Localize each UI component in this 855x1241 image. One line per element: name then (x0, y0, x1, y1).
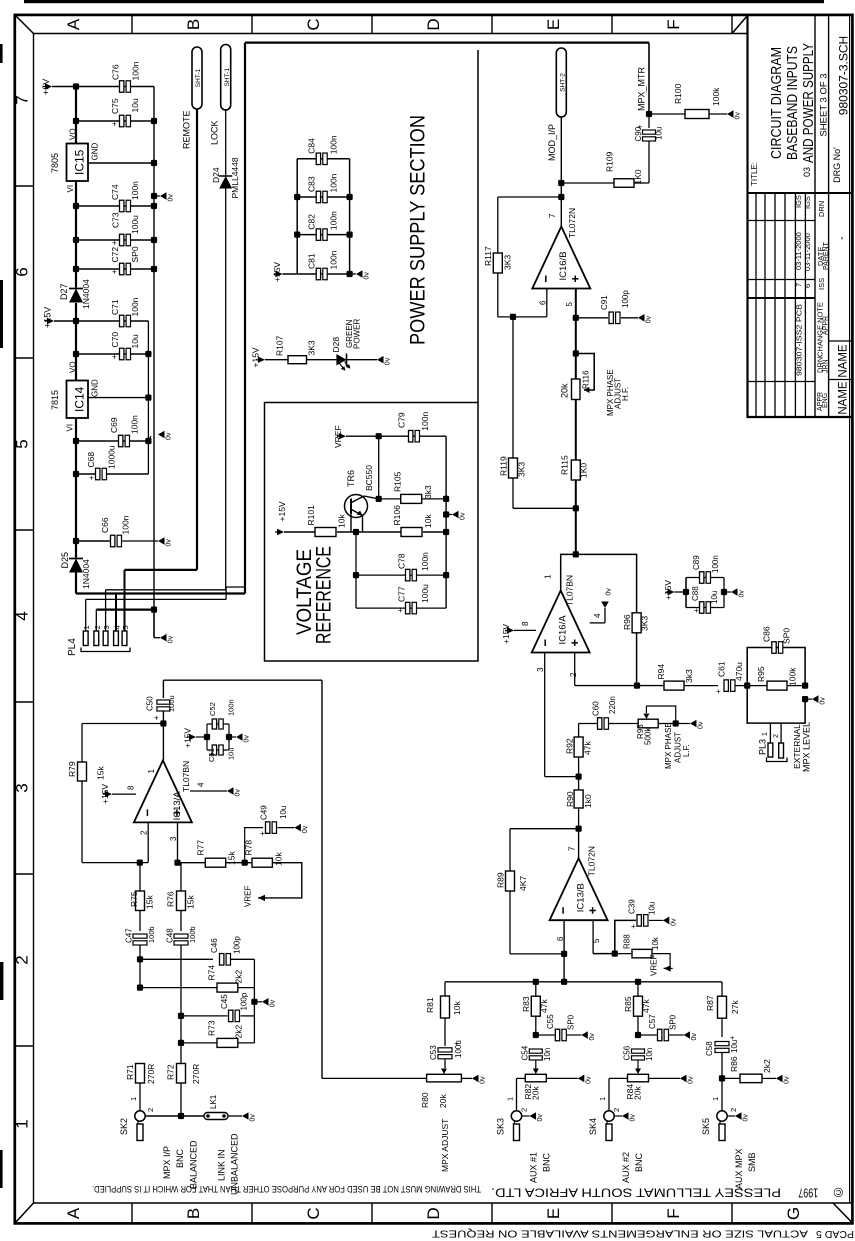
capacitor C71 (76, 320, 148, 322)
svg-text:SHT-1: SHT-1 (195, 68, 202, 87)
svg-text:AUX #2: AUX #2 (621, 1152, 631, 1183)
svg-text:C89: C89 (692, 555, 701, 570)
svg-text:C: C (304, 1207, 323, 1219)
svg-text:R109: R109 (605, 151, 615, 172)
ground SK3 shield (522, 1115, 530, 1117)
svg-text:100n: 100n (130, 181, 140, 200)
connector SK4 (604, 1111, 614, 1121)
resistor R106 (401, 528, 422, 537)
svg-text:R96: R96 (622, 614, 632, 630)
svg-text:R86: R86 (729, 1056, 739, 1072)
wire pin5 to REMOTE (125, 569, 198, 571)
svg-text:C56: C56 (623, 1045, 632, 1060)
svg-text:VO: VO (69, 361, 78, 373)
svg-text:C49: C49 (260, 805, 269, 820)
capacitor C84 (297, 158, 349, 160)
svg-text:IC15: IC15 (73, 149, 87, 175)
op-amp IC16/B (532, 227, 590, 289)
wire pin6 IC16/B (546, 289, 548, 317)
ground 0V (356, 270, 371, 279)
svg-text:47k: 47k (539, 999, 549, 1013)
capacitor C86 loop (747, 648, 805, 686)
svg-text:0v: 0v (537, 1114, 544, 1122)
svg-text:D: D (424, 1207, 443, 1219)
svg-text:POWER SUPPLY SECTION: POWER SUPPLY SECTION (407, 115, 430, 345)
wire pin3 IC13/A (177, 822, 179, 862)
svg-text:BASEBAND INPUTS: BASEBAND INPUTS (785, 46, 801, 160)
svg-text:MPX_MTR: MPX_MTR (637, 66, 647, 111)
op-amp IC13/B (550, 858, 608, 920)
svg-text:DRN: DRN (817, 201, 826, 217)
svg-text:0v: 0v (166, 539, 173, 547)
svg-text:8: 8 (521, 621, 530, 626)
svg-text:C66: C66 (100, 517, 110, 533)
wire R107 to D28 (307, 359, 337, 361)
wire SK2 shield (145, 1115, 204, 1117)
wire D28 to ground (347, 359, 378, 361)
svg-text:+: + (89, 474, 94, 483)
svg-text:SK4: SK4 (588, 1118, 598, 1135)
wire pin4 IC13/A ground (190, 790, 227, 792)
resistor R83 (535, 982, 537, 996)
svg-text:980307-ISS2 PCB: 980307-ISS2 PCB (795, 304, 804, 376)
wire pin4 rail horizontal (76, 592, 245, 594)
node +6V (45, 83, 52, 89)
svg-text:1: 1 (711, 1097, 720, 1101)
ground 0V (601, 588, 612, 608)
capacitor C68 (76, 473, 96, 475)
capacitor C69 (76, 440, 148, 442)
svg-text:0v: 0v (270, 999, 277, 1007)
svg-text:100n: 100n (329, 250, 339, 269)
svg-text:PCAD 5: PCAD 5 (816, 1228, 854, 1240)
resistor R88 (615, 953, 632, 955)
svg-text:0v: 0v (235, 789, 242, 797)
ground branch C69 (148, 434, 160, 441)
svg-text:BALANCED: BALANCED (189, 1140, 199, 1189)
svg-text:R85: R85 (623, 996, 633, 1012)
svg-text:IC14: IC14 (73, 386, 87, 412)
svg-text:0v: 0v (739, 590, 746, 598)
wire R79 bottom to pin2 (82, 862, 148, 864)
wire +15V to rail (54, 320, 76, 322)
capacitor C60 (579, 723, 597, 725)
svg-text:47k: 47k (641, 999, 651, 1013)
wire cap bank left vertical (283, 273, 298, 275)
svg-text:MPX LEVEL: MPX LEVEL (802, 722, 812, 772)
wire cap bank right vertical (349, 159, 351, 274)
svg-text:+: + (112, 353, 117, 362)
wire R119 bottom (513, 507, 576, 509)
wire collector drop (378, 436, 380, 499)
resistor R85 (637, 982, 639, 996)
svg-text:100u: 100u (130, 215, 140, 234)
svg-text:100n: 100n (130, 297, 140, 316)
LED D28 (336, 354, 346, 366)
svg-text:47k: 47k (583, 741, 593, 755)
svg-text:270R: 270R (191, 1064, 201, 1084)
svg-text:+: + (209, 750, 214, 759)
svg-text:2k2: 2k2 (762, 1059, 772, 1073)
svg-text:100n: 100n (227, 699, 236, 716)
resistor R72 (177, 1064, 186, 1084)
ground 0V (472, 1075, 487, 1084)
resistor R119 (512, 317, 514, 458)
wire R117 feedback top (498, 196, 562, 198)
svg-text:3: 3 (102, 625, 111, 629)
wire MOD_I/P vertical (560, 117, 562, 227)
ground mid branch (251, 999, 257, 1005)
svg-text:5: 5 (592, 938, 601, 943)
svg-text:270R: 270R (146, 1064, 156, 1084)
svg-text:TL07BN: TL07BN (565, 575, 575, 606)
section boundary vertical line (477, 50, 479, 403)
ground 0V (530, 1112, 545, 1121)
ground 0V (236, 733, 251, 742)
svg-text:G: G (784, 1207, 803, 1220)
wire +6V rail top (52, 86, 154, 88)
svg-text:SP0: SP0 (566, 1014, 575, 1030)
connector SK2 (135, 1111, 145, 1121)
ground 0V (622, 1112, 637, 1121)
grid band dividers bottom (131, 1203, 133, 1223)
svg-text:100u: 100u (167, 695, 176, 712)
svg-text:5: 5 (13, 439, 32, 448)
svg-text:D24: D24 (211, 167, 221, 183)
svg-text:+: + (631, 922, 636, 931)
svg-text:5: 5 (565, 302, 574, 307)
resistor R78 (252, 858, 272, 867)
svg-text:1K0: 1K0 (633, 169, 643, 184)
svg-text:C81: C81 (307, 253, 317, 269)
svg-text:R77: R77 (196, 840, 206, 856)
svg-text:+15V: +15V (183, 728, 193, 748)
wire PL3 loop (747, 686, 805, 724)
svg-text:C52: C52 (208, 702, 217, 716)
svg-text:C69: C69 (109, 417, 119, 433)
svg-text:1k0: 1k0 (583, 794, 593, 808)
wire pin1 horizontal (86, 598, 226, 600)
node +15V (47, 318, 54, 324)
node +15V vref (277, 529, 284, 535)
capacitor C50 (162, 680, 164, 698)
svg-text:100n: 100n (329, 173, 339, 192)
svg-text:NAME: NAME (838, 344, 850, 378)
svg-text:C76: C76 (111, 64, 121, 80)
capacitor C83 (297, 196, 349, 198)
svg-text:R81: R81 (425, 997, 435, 1013)
svg-text:0v: 0v (250, 1114, 257, 1122)
svg-text:20k: 20k (438, 1094, 448, 1108)
resistor R101 (284, 531, 315, 533)
svg-text:2: 2 (612, 1108, 621, 1112)
svg-text:SHT-2: SHT-2 (560, 73, 567, 92)
svg-text:+: + (112, 239, 117, 248)
svg-text:1000u: 1000u (107, 445, 117, 469)
corner diagonal top-left (16, 16, 34, 34)
svg-text:10u: 10u (655, 127, 664, 140)
node VREF R88 (664, 965, 671, 971)
ground 0V (684, 1031, 699, 1040)
wire right branch C46 R74 (253, 959, 255, 1043)
svg-text:GND: GND (91, 143, 100, 161)
svg-text:SK3: SK3 (496, 1118, 506, 1135)
svg-text:TL072N: TL072N (567, 208, 577, 238)
svg-text:3K3: 3K3 (517, 462, 527, 477)
svg-text:SK2: SK2 (119, 1118, 129, 1135)
svg-text:20k: 20k (531, 1086, 541, 1100)
PL4 bracket (81, 648, 130, 652)
resistor R92 (578, 724, 580, 738)
svg-text:TR6: TR6 (346, 470, 356, 487)
svg-text:4K7: 4K7 (518, 876, 528, 891)
svg-text:100n: 100n (130, 415, 140, 434)
wire top distribution horizontal (245, 41, 649, 43)
svg-text:POWER: POWER (353, 319, 362, 349)
corner diagonal bottom-right (833, 1203, 852, 1222)
ground branch IC15 (151, 193, 157, 199)
wire pin3 to LOCK (106, 589, 226, 591)
svg-text:C82: C82 (307, 214, 317, 230)
ground 0V (452, 511, 467, 520)
wire pin2 IC13/A (147, 822, 149, 862)
svg-text:BNC: BNC (634, 1152, 644, 1172)
svg-text:0v: 0v (691, 1033, 698, 1041)
svg-text:0v: 0v (364, 272, 371, 280)
svg-text:100p: 100p (240, 992, 249, 1010)
svg-text:+6V: +6V (41, 79, 51, 95)
diode D24 (219, 175, 232, 177)
ground 0V (812, 695, 827, 704)
svg-text:10k: 10k (273, 852, 283, 866)
svg-text:6: 6 (803, 284, 812, 288)
svg-text:100k: 100k (788, 667, 798, 686)
svg-text:0v: 0v (166, 432, 173, 440)
ground 0V (262, 998, 277, 1007)
svg-text:PMLL4448: PMLL4448 (230, 157, 240, 198)
transistor TR6 (345, 495, 368, 518)
svg-text:2: 2 (520, 1108, 529, 1112)
node VREF R78 (258, 895, 265, 901)
top margin black bar (24, 0, 824, 3)
svg-text:4: 4 (593, 613, 602, 618)
svg-text:+: + (730, 1033, 735, 1042)
svg-text:10u: 10u (648, 902, 657, 915)
ground 0V (776, 1075, 791, 1084)
svg-text:6: 6 (538, 300, 547, 305)
svg-text:SHEET 3 OF 3: SHEET 3 OF 3 (819, 73, 830, 136)
svg-text:100n: 100n (420, 412, 430, 431)
svg-text:0v: 0v (735, 112, 742, 120)
sheet link MOD_I/P SHT-2 (556, 48, 566, 117)
wire pin6 IC13/B (563, 920, 565, 982)
wire VREF rail (346, 435, 379, 437)
svg-text:5: 5 (121, 625, 130, 629)
capacitor C58 (715, 1042, 729, 1046)
svg-text:6: 6 (556, 936, 565, 941)
wire C50 coupling vertical (321, 680, 323, 1078)
svg-text:C47: C47 (124, 928, 133, 943)
svg-text:03: 03 (802, 167, 812, 177)
svg-text:2: 2 (146, 1108, 155, 1112)
resistor R117 (497, 197, 499, 253)
capacitor C48 (174, 934, 188, 938)
svg-text:+: + (260, 829, 265, 838)
capacitor C57 (635, 1032, 641, 1038)
svg-text:2: 2 (773, 734, 780, 738)
svg-text:100u: 100u (420, 584, 430, 603)
ground 0V (158, 537, 173, 546)
svg-text:E: E (544, 19, 563, 30)
trimpot R116 (573, 350, 579, 356)
svg-text:C84: C84 (307, 138, 317, 154)
svg-text:0v: 0v (244, 735, 251, 743)
svg-text:R90: R90 (565, 791, 575, 807)
resistor R100 (649, 113, 685, 115)
resistor R79 feedback (82, 723, 163, 725)
svg-text:R116: R116 (582, 370, 591, 389)
svg-text:2k2: 2k2 (234, 970, 244, 984)
svg-text:C73: C73 (111, 212, 121, 228)
title block right column cells (829, 340, 852, 342)
grid band dividers top (131, 15, 133, 34)
svg-text:L.F.: L.F. (682, 744, 691, 757)
svg-text:100n: 100n (329, 135, 339, 154)
svg-text:R76: R76 (166, 891, 176, 907)
ground 0V (294, 824, 309, 833)
resistor R86 (722, 1077, 740, 1079)
svg-text:GND: GND (91, 379, 100, 397)
svg-text:R83: R83 (521, 996, 531, 1012)
diode D25 (69, 558, 83, 560)
trimpot R84 (635, 1069, 641, 1075)
resistor R89 (509, 829, 511, 871)
svg-text:100n: 100n (711, 555, 720, 573)
svg-text:IC16/A: IC16/A (558, 615, 569, 645)
svg-text:7815: 7815 (50, 390, 60, 410)
resistor R115 (571, 460, 580, 480)
bus wire right of IC15 (153, 87, 155, 610)
capacitor C76 (120, 81, 124, 93)
resistor R76 (177, 891, 186, 911)
ground 0V (581, 1031, 596, 1040)
svg-text:7: 7 (794, 283, 803, 287)
wire output rail (575, 685, 664, 687)
svg-text:R107: R107 (275, 335, 285, 356)
ground 0V (735, 1112, 750, 1121)
svg-text:4: 4 (13, 611, 32, 620)
svg-text:IGS: IGS (794, 195, 803, 208)
svg-text:MPX ADJUST: MPX ADJUST (440, 1119, 450, 1172)
capacitor C78 (356, 574, 446, 576)
capacitor C79 (379, 435, 446, 437)
capacitor C72 (76, 268, 154, 270)
wire pin2 to ground bus (96, 608, 154, 610)
capacitor C81 (297, 273, 349, 275)
capacitor C39 (615, 920, 636, 953)
resistor R87 (721, 982, 723, 996)
svg-text:R89: R89 (496, 872, 506, 888)
svg-text:1N4004: 1N4004 (81, 279, 91, 309)
svg-text:SP0: SP0 (669, 1014, 678, 1030)
svg-text:R117: R117 (483, 246, 493, 266)
svg-text:0v: 0v (302, 825, 309, 833)
capacitor C47 (133, 934, 147, 938)
inner right border line (849, 15, 851, 1203)
wire divider drop (355, 532, 357, 608)
svg-text:10u: 10u (130, 334, 140, 348)
svg-text:R101: R101 (306, 505, 316, 526)
svg-text:ISS: ISS (817, 278, 826, 290)
svg-text:3k3: 3k3 (423, 485, 433, 499)
svg-text:+: + (716, 687, 721, 696)
wire R74 row (137, 985, 143, 991)
wire C46 row (137, 956, 143, 962)
svg-text:+: + (148, 925, 153, 934)
svg-text:C88: C88 (691, 586, 700, 601)
svg-text:0v: 0v (168, 635, 175, 643)
decoupling +15V C88 C89 (668, 589, 675, 595)
svg-text:500k: 500k (644, 727, 653, 745)
wire R89 feedback top (510, 828, 579, 830)
title block horizontal dividers (748, 192, 852, 194)
svg-text:20k: 20k (560, 383, 570, 398)
svg-text:R94: R94 (656, 664, 666, 680)
svg-text:R78: R78 (244, 840, 254, 856)
svg-text:C45: C45 (220, 994, 229, 1009)
svg-text:C58: C58 (705, 1041, 714, 1056)
svg-text:1: 1 (129, 1097, 138, 1101)
svg-text:20k: 20k (633, 1086, 643, 1100)
decoupling C51 C52 (189, 734, 196, 740)
svg-text:7: 7 (568, 846, 577, 851)
svg-text:3: 3 (13, 783, 32, 792)
svg-text:03-11-2000: 03-11-2000 (794, 232, 803, 270)
svg-text:3K3: 3K3 (503, 255, 513, 270)
svg-text:2: 2 (729, 1108, 738, 1112)
svg-text:TITLE:: TITLE: (750, 162, 759, 186)
svg-text:0v: 0v (630, 1114, 637, 1122)
op-amp IC16/A (532, 591, 590, 653)
link LK1 (204, 1113, 228, 1120)
svg-text:SHT-1: SHT-1 (224, 68, 231, 87)
resistor R77 (178, 862, 206, 864)
capacitor C88 (700, 602, 704, 614)
svg-text:C54: C54 (520, 1045, 529, 1060)
capacitor C77 (356, 607, 446, 609)
wire R113 chain (576, 774, 582, 780)
svg-text:7: 7 (548, 213, 557, 218)
trimpot R82 (533, 1069, 539, 1075)
svg-text:1N4004: 1N4004 (81, 559, 91, 589)
svg-text:B: B (184, 19, 203, 30)
capacitor C53 (438, 1048, 452, 1052)
svg-text:©: © (833, 1185, 843, 1200)
svg-text:10n: 10n (645, 1048, 654, 1061)
svg-text:R74: R74 (207, 965, 217, 981)
ground 0V (690, 720, 705, 729)
svg-text:C86: C86 (762, 626, 772, 642)
svg-text:0v: 0v (743, 1114, 750, 1122)
svg-text:BNC: BNC (175, 1148, 185, 1168)
svg-text:1997: 1997 (798, 1186, 818, 1200)
wire pin4 IC16/A (590, 622, 605, 624)
capacitor C46 (220, 954, 224, 966)
svg-text:SK5: SK5 (701, 1118, 711, 1135)
svg-text:D27: D27 (59, 283, 69, 300)
svg-text:R119: R119 (499, 456, 509, 476)
svg-text:AUX #1: AUX #1 (529, 1152, 539, 1183)
